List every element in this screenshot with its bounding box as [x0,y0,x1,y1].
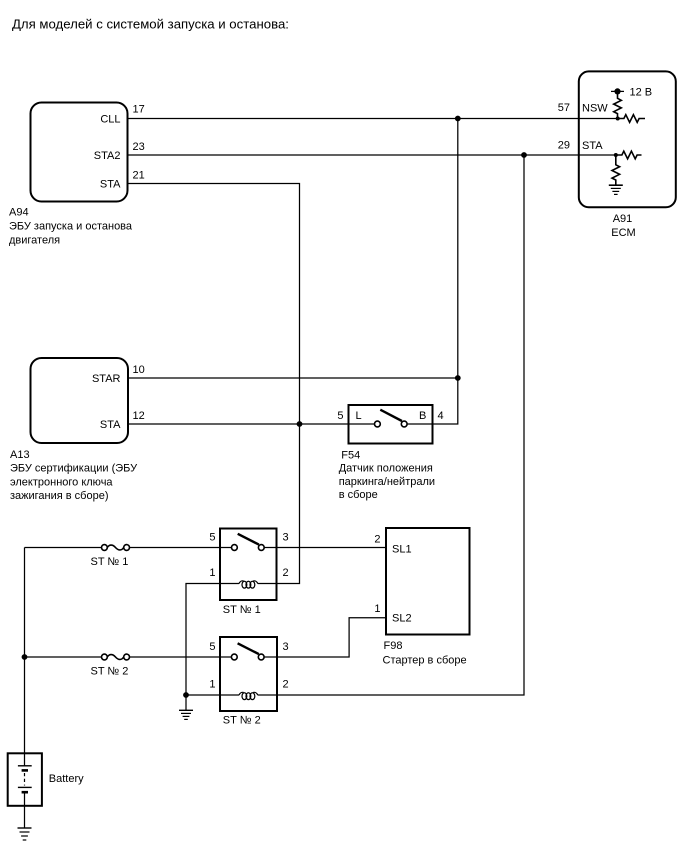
node junction STA wire at A13 STA level [297,421,303,427]
svg-text:Стартер в сборе: Стартер в сборе [383,655,467,667]
svg-text:двигателя: двигателя [9,235,60,247]
wire relay ST1 pin 1 to ground bus [186,584,220,711]
svg-text:29: 29 [558,139,570,151]
battery plate short thick top [22,769,28,772]
svg-text:2: 2 [283,567,289,579]
battery box [8,753,42,806]
wire fuse ST1 to relay ST1 pin 5 [130,547,221,549]
wire STA2 A94-23 to ECM-29 STA [128,154,616,156]
F54 switch contact right [401,421,407,427]
svg-text:электронного ключа: электронного ключа [10,476,113,488]
svg-text:в сборе: в сборе [339,489,378,501]
node junction on CLL wire [455,116,461,122]
svg-text:A13: A13 [10,449,30,461]
svg-text:NSW: NSW [582,102,608,114]
wire relay ST2 pin 1 to ground junction [186,694,220,696]
ground below relays [179,710,193,719]
A91 ECM label [611,213,635,239]
relay ST1 contact left [232,545,238,551]
resistor pull-down STA [612,155,620,185]
svg-text:ST № 2: ST № 2 [223,714,261,726]
svg-text:5: 5 [337,410,343,422]
battery plate long bottom [18,786,32,788]
wire battery bus to fuse ST2 [25,656,102,658]
12V supply dot [614,88,620,94]
node junction on STA2 wire [521,152,527,158]
wire STA A94-21 down to relay ST1 pin 2 [128,184,300,584]
svg-text:STA: STA [100,179,121,191]
svg-text:ЭБУ сертификации (ЭБУ: ЭБУ сертификации (ЭБУ [10,463,138,475]
svg-text:STA: STA [100,419,121,431]
resistor series NSW [618,115,645,123]
F54 switch blade [380,410,402,421]
wire vertical STA2 junction down to relay ST2 pin 2 [277,155,524,695]
svg-text:2: 2 [283,679,289,691]
svg-text:4: 4 [438,410,444,422]
wire fuse ST2 to relay ST2 pin 5 [130,656,221,658]
battery bus vertical [24,548,26,766]
ground below battery [18,828,32,840]
svg-text:2: 2 [374,534,380,546]
relay ST2 switch blade [238,643,259,654]
svg-text:A94: A94 [9,207,29,219]
A94 label [9,207,133,247]
wire relay ST1 pin 3 to starter SL1 [277,547,387,549]
svg-text:12: 12 [133,410,145,422]
svg-text:ST № 1: ST № 1 [223,604,261,616]
svg-text:3: 3 [283,532,289,544]
svg-text:SL1: SL1 [392,543,412,555]
svg-text:ST № 1: ST № 1 [91,556,129,568]
resistor series STA [616,151,642,159]
relay ST2 contact right [258,654,264,660]
svg-text:паркинга/нейтрали: паркинга/нейтрали [339,476,435,488]
svg-text:L: L [356,410,362,422]
svg-text:STA: STA [582,140,603,152]
relay ST2 contact left [231,654,237,660]
relay box ST No 2 [220,637,277,711]
svg-text:зажигания в сборе): зажигания в сборе) [10,490,109,502]
svg-text:3: 3 [283,641,289,653]
resistor pull-up NSW [614,91,622,118]
wire relay ST2 pin 3 to starter SL2 [277,618,386,657]
relay ST1 contact right [258,545,264,551]
battery plate short thick bottom [22,791,28,794]
wire vertical CLL junction to F54 pin 4 [433,119,458,425]
battery dashed middle [24,773,26,786]
svg-text:5: 5 [209,532,215,544]
svg-text:SL2: SL2 [392,613,412,625]
svg-text:STAR: STAR [92,373,121,385]
svg-text:A91: A91 [613,213,633,225]
svg-text:1: 1 [209,567,215,579]
svg-text:1: 1 [209,679,215,691]
svg-text:ECM: ECM [611,227,635,239]
relay ST1 switch wires [220,547,277,549]
node NSW junction [616,117,620,121]
switch box F54 [349,405,433,444]
battery plate long top [18,765,32,767]
svg-text:ЭБУ запуска и останова: ЭБУ запуска и останова [9,221,133,233]
svg-text:B: B [419,410,426,422]
ECU box A94 [31,103,128,202]
relay ST2 switch wires [220,656,277,658]
svg-text:12 В: 12 В [630,86,653,98]
svg-text:F98: F98 [384,640,403,652]
A13 label [10,449,138,502]
svg-text:ST № 2: ST № 2 [91,665,129,677]
wire battery bus to fuse ST1 [25,547,102,549]
fuse ST No 1 [102,545,130,551]
svg-text:5: 5 [209,641,215,653]
relay box ST No 1 [220,529,277,601]
ECU box A91 ECM [579,71,676,207]
svg-text:17: 17 [133,104,145,116]
ground inside ECM [609,185,623,194]
wire STA A13-12 to F54 pin 5 [128,423,349,425]
starter box F98 [386,528,470,635]
node junction battery bus to fuse ST2 [22,654,28,660]
svg-text:Battery: Battery [49,773,84,785]
svg-text:STA2: STA2 [94,150,121,162]
svg-text:21: 21 [133,170,145,182]
F98 label [383,640,467,667]
svg-text:23: 23 [133,141,145,153]
svg-text:1: 1 [374,603,380,615]
relay ST1 switch blade [238,534,259,545]
node junction ground bus [183,692,189,698]
wire CLL A94-17 to ECM-57 NSW [128,118,618,120]
12V supply tick [611,90,624,92]
svg-text:Датчик положения: Датчик положения [339,463,433,475]
F54 switch contact left [375,421,381,427]
svg-text:57: 57 [558,102,570,114]
wire battery to ground [24,794,26,828]
relay ST1 coil [220,581,277,588]
node STA junction [614,153,618,157]
svg-text:F54: F54 [341,449,360,461]
F54 internal wires [349,423,433,425]
svg-text:CLL: CLL [100,114,120,126]
svg-text:Для моделей с системой запуска: Для моделей с системой запуска и останов… [12,16,289,31]
fuse ST No 2 [102,654,130,660]
svg-text:10: 10 [133,364,145,376]
node junction STAR wire meets vertical [455,375,461,381]
relay ST2 coil [220,692,277,699]
ECU box A13 [31,358,129,443]
wire STAR A13-10 to junction [128,377,458,379]
F54 label [339,449,435,501]
